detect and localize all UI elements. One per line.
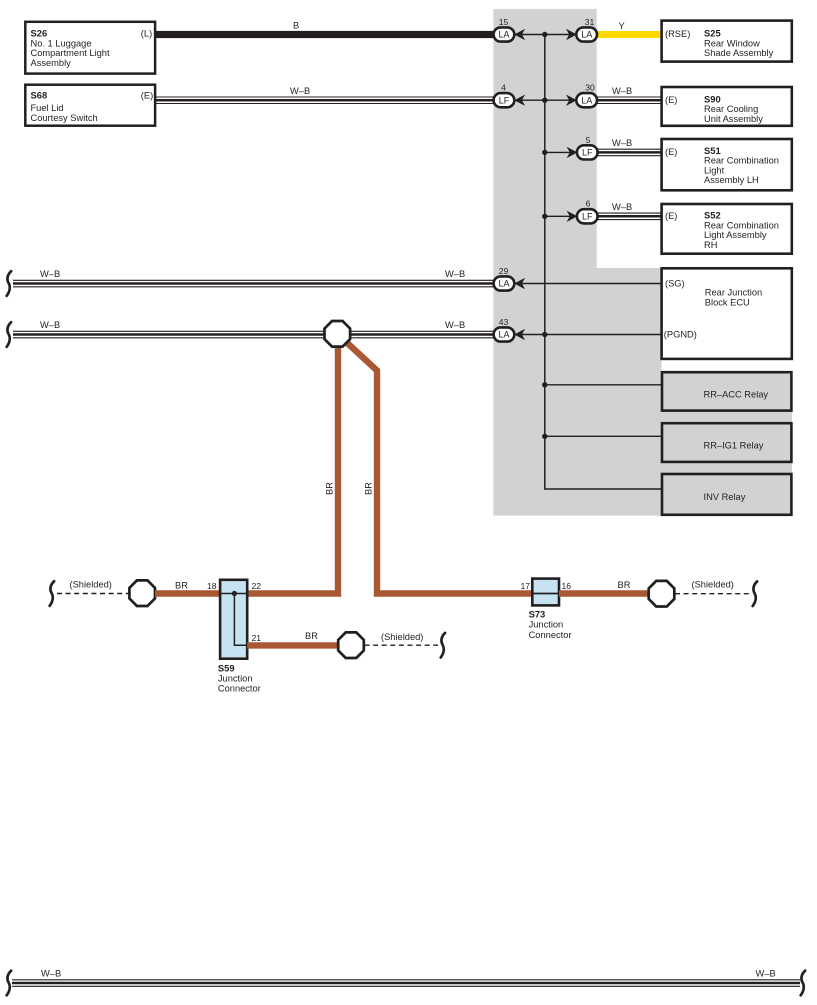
svg-text:INV Relay: INV Relay	[704, 492, 746, 502]
device box S26	[25, 22, 155, 74]
svg-text:(Shielded): (Shielded)	[70, 579, 112, 589]
svg-text:Light: Light	[704, 165, 725, 175]
connector LA pin 31	[566, 17, 597, 42]
svg-text:Rear Combination: Rear Combination	[704, 156, 779, 166]
relay box RR-ACC	[662, 372, 791, 410]
line to RR-ACC relay	[545, 384, 662, 386]
junction block shading top band	[493, 9, 596, 268]
device box S51	[662, 139, 792, 190]
shield octagon left	[129, 580, 155, 606]
continuation mark	[753, 581, 757, 606]
svg-text:W–B: W–B	[612, 138, 632, 148]
svg-text:W–B: W–B	[612, 86, 632, 96]
svg-text:S68: S68	[31, 90, 48, 101]
svg-text:BR: BR	[325, 482, 335, 495]
svg-text:W–B: W–B	[40, 269, 60, 279]
svg-text:30: 30	[585, 83, 595, 93]
svg-text:LF: LF	[582, 148, 593, 158]
wire W-B row 43 from left continuation	[13, 331, 494, 338]
svg-text:BR: BR	[175, 581, 188, 591]
shield octagon right	[649, 581, 675, 607]
wire W-B from LA30 to S90	[597, 97, 662, 104]
device box S52	[662, 204, 792, 254]
svg-text:(Shielded): (Shielded)	[692, 579, 734, 589]
connector LA pin 30	[566, 83, 597, 108]
connector LF pin 4	[494, 83, 525, 108]
continuation mark bottom left	[7, 971, 11, 996]
junction block bus line	[545, 35, 662, 490]
svg-text:LF: LF	[582, 212, 593, 222]
svg-text:S51: S51	[704, 145, 721, 156]
wire BR S59 pin 21 to shield octagon	[247, 642, 338, 648]
shield octagon middle	[338, 632, 364, 658]
svg-text:W–B: W–B	[756, 969, 776, 979]
svg-text:S26: S26	[31, 28, 48, 39]
row 1 inner line	[514, 34, 577, 36]
junction connector S59	[218, 580, 261, 694]
svg-text:31: 31	[585, 17, 595, 27]
svg-text:Assembly: Assembly	[31, 58, 72, 68]
svg-text:S90: S90	[704, 93, 721, 104]
svg-text:Shade Assembly: Shade Assembly	[704, 48, 774, 58]
device box S90	[662, 87, 792, 126]
svg-text:Light Assembly: Light Assembly	[704, 230, 767, 240]
svg-text:W–B: W–B	[445, 320, 465, 330]
svg-text:S25: S25	[704, 28, 721, 39]
svg-text:LF: LF	[499, 95, 510, 105]
row 3 inner line	[545, 151, 578, 153]
svg-text:LA: LA	[498, 30, 509, 40]
svg-text:Rear Junction: Rear Junction	[705, 288, 762, 298]
svg-text:43: 43	[499, 317, 509, 327]
svg-text:Junction: Junction	[529, 620, 564, 630]
svg-text:(L): (L)	[141, 29, 152, 39]
svg-text:(E): (E)	[665, 211, 677, 221]
svg-text:4: 4	[501, 83, 506, 93]
svg-text:22: 22	[252, 581, 262, 591]
svg-text:5: 5	[586, 135, 591, 145]
svg-text:Connector: Connector	[529, 630, 572, 640]
svg-text:BR: BR	[364, 482, 374, 495]
svg-text:No. 1 Luggage: No. 1 Luggage	[31, 38, 92, 48]
connector LF pin 5	[567, 135, 598, 160]
wire W-B from LF6 to S52	[597, 213, 662, 220]
device box S68	[25, 85, 155, 126]
connector LA pin 29	[494, 266, 525, 291]
wire Y from LA31 to S25	[597, 31, 662, 38]
svg-text:Rear Cooling: Rear Cooling	[704, 104, 758, 114]
connector LA pin 43	[494, 317, 525, 342]
svg-text:W–B: W–B	[612, 202, 632, 212]
shielded row S59: continuation mark	[50, 581, 54, 606]
wire BR octagon to S59	[155, 590, 221, 596]
relay box RR-IG1	[662, 423, 791, 462]
svg-text:Assembly LH: Assembly LH	[704, 175, 759, 185]
svg-text:Compartment Light: Compartment Light	[31, 48, 110, 58]
relay box INV	[662, 474, 791, 515]
svg-text:Rear Combination: Rear Combination	[704, 220, 779, 230]
svg-text:(E): (E)	[665, 95, 677, 105]
wire BR S73 to shield octagon	[559, 590, 648, 596]
junction block shading mid band	[493, 268, 661, 516]
junction connector S73	[529, 579, 572, 640]
svg-text:(PGND): (PGND)	[664, 330, 697, 340]
dashed shield line	[675, 593, 750, 595]
svg-text:BR: BR	[618, 580, 631, 590]
svg-text:LA: LA	[498, 279, 509, 289]
dashed shield line	[365, 644, 439, 646]
svg-text:21: 21	[252, 633, 262, 643]
wire W-B from LF5 to S51	[597, 149, 662, 156]
svg-text:Block ECU: Block ECU	[705, 297, 750, 307]
wire BR vertical from splice to S73 pin 17	[344, 340, 533, 594]
svg-text:Courtesy Switch: Courtesy Switch	[31, 113, 98, 123]
svg-text:Unit Assembly: Unit Assembly	[704, 114, 763, 124]
splice octagon row 43	[325, 321, 351, 347]
svg-text:S73: S73	[529, 608, 546, 619]
svg-text:W–B: W–B	[41, 969, 61, 979]
wire W-B from S68 to LF4	[155, 97, 494, 104]
continuation mark bottom right	[801, 971, 805, 996]
bus junction dots	[542, 32, 547, 439]
svg-text:29: 29	[499, 266, 509, 276]
svg-text:16: 16	[562, 581, 572, 591]
wire BR vertical from splice to S59 pin 22	[247, 335, 338, 594]
continuation mark	[441, 633, 445, 658]
svg-text:Connector: Connector	[218, 684, 261, 694]
svg-text:(E): (E)	[141, 91, 153, 101]
svg-text:LA: LA	[581, 30, 592, 40]
svg-text:S59: S59	[218, 662, 235, 673]
svg-text:LA: LA	[581, 95, 592, 105]
svg-text:Fuel Lid: Fuel Lid	[31, 103, 64, 113]
connector LF pin 6	[567, 199, 598, 224]
svg-text:Junction: Junction	[218, 673, 253, 683]
svg-text:15: 15	[499, 17, 509, 27]
svg-text:18: 18	[207, 581, 217, 591]
svg-text:W–B: W–B	[40, 320, 60, 330]
svg-text:B: B	[293, 21, 299, 31]
row 2 inner line	[514, 99, 577, 101]
svg-text:17: 17	[520, 581, 530, 591]
svg-text:RH: RH	[704, 240, 717, 250]
continuation mark row 43	[7, 322, 11, 347]
wire B from S26 to LA15	[155, 31, 494, 38]
svg-text:(E): (E)	[665, 147, 677, 157]
svg-text:Y: Y	[619, 21, 625, 31]
svg-text:RR–ACC Relay: RR–ACC Relay	[704, 389, 769, 399]
junction block shading behind relays	[661, 372, 792, 515]
svg-text:(SG): (SG)	[665, 279, 685, 289]
continuation mark row 29	[7, 271, 11, 296]
row 29 line to SG	[514, 283, 661, 285]
row 4 inner line	[545, 215, 578, 217]
svg-text:BR: BR	[305, 631, 318, 641]
svg-text:LA: LA	[498, 330, 509, 340]
svg-text:(Shielded): (Shielded)	[381, 632, 423, 642]
row 43 line to PGND	[514, 334, 661, 336]
device box Rear Junction Block ECU	[662, 268, 792, 359]
svg-text:RR–IG1 Relay: RR–IG1 Relay	[704, 441, 764, 451]
svg-text:(RSE): (RSE)	[665, 29, 690, 39]
wire W-B row 29 from left continuation	[13, 280, 494, 287]
svg-text:S52: S52	[704, 210, 721, 221]
svg-text:Rear Window: Rear Window	[704, 38, 760, 48]
device box S25	[662, 21, 792, 62]
bottom wire W-B	[12, 980, 800, 987]
dashed shield line	[57, 593, 129, 595]
connector LA pin 15	[494, 17, 525, 42]
svg-text:6: 6	[586, 199, 591, 209]
line to RR-IG1 relay	[545, 435, 662, 437]
svg-text:W–B: W–B	[445, 269, 465, 279]
svg-text:W–B: W–B	[290, 86, 310, 96]
